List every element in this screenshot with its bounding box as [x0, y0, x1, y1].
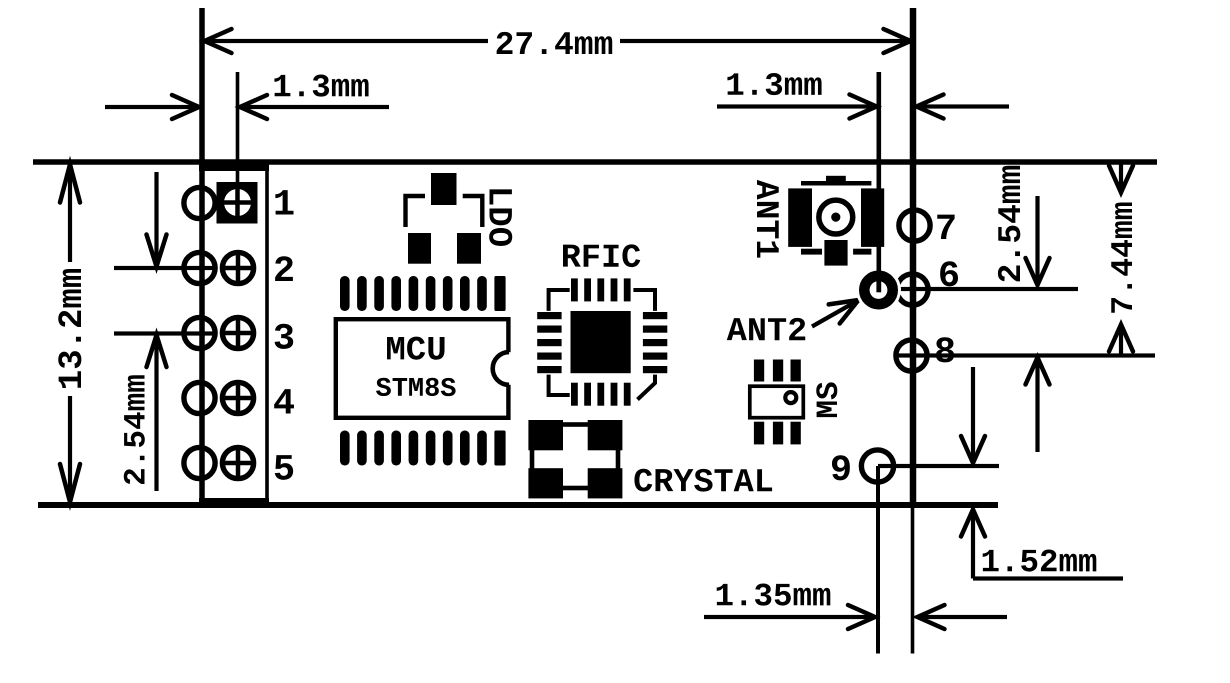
svg-text:1.52mm: 1.52mm	[980, 544, 1097, 581]
svg-text:8: 8	[934, 332, 956, 374]
svg-text:1.3mm: 1.3mm	[725, 68, 823, 105]
svg-text:7: 7	[935, 209, 957, 251]
svg-text:MCU: MCU	[385, 332, 446, 370]
svg-text:5: 5	[273, 449, 295, 491]
svg-text:ANT1: ANT1	[747, 180, 784, 259]
svg-text:13.2mm: 13.2mm	[54, 268, 92, 390]
svg-text:1.35mm: 1.35mm	[714, 578, 831, 615]
svg-text:2.54mm: 2.54mm	[119, 374, 154, 486]
svg-text:1: 1	[273, 184, 295, 226]
svg-text:MS: MS	[812, 381, 847, 418]
svg-text:3: 3	[273, 318, 295, 360]
svg-text:2: 2	[273, 251, 295, 293]
svg-text:1.3mm: 1.3mm	[272, 69, 370, 106]
svg-text:RFIC: RFIC	[561, 240, 641, 278]
svg-text:4: 4	[273, 383, 295, 425]
svg-text:2.54mm: 2.54mm	[993, 165, 1030, 284]
svg-text:9: 9	[830, 450, 852, 492]
svg-text:ANT2: ANT2	[727, 313, 807, 351]
svg-text:7.44mm: 7.44mm	[1107, 201, 1142, 314]
svg-text:6: 6	[938, 256, 960, 298]
svg-text:STM8S: STM8S	[375, 375, 456, 405]
svg-text:CRYSTAL: CRYSTAL	[633, 464, 774, 502]
svg-text:27.4mm: 27.4mm	[495, 27, 614, 64]
svg-text:LDO: LDO	[479, 186, 517, 247]
